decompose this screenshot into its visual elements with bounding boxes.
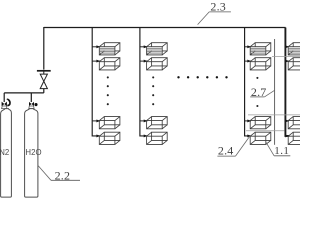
ellipsis dots horizontal (omitted branches) (177, 76, 227, 78)
arrow feed row2 branch 4 (285, 60, 289, 63)
arrow feed row4 branch 1 (96, 134, 100, 137)
section line upper (272, 55, 300, 57)
gas cylinder H2O (2.2) (25, 109, 38, 198)
arrow feed row1 branch 3 (247, 45, 251, 48)
label 2.7 underline (250, 96, 264, 98)
wire: stub row3 branch 4 (285, 120, 289, 122)
wire: stub row3 branch 3 (245, 120, 251, 122)
ellipsis dots branch 3 (256, 77, 258, 107)
cell box L1R3 (99, 117, 120, 129)
cell box L3R3 (250, 117, 271, 129)
label 2.4 underline (217, 155, 235, 157)
wire: bar to valve stem (43, 72, 45, 75)
section line lower (248, 114, 300, 116)
arrow feed row4 branch 2 (144, 134, 148, 137)
arrow feed row3 branch 4 (285, 119, 289, 122)
arrow feed row3 branch 1 (96, 119, 100, 122)
arrow feed row2 branch 2 (144, 60, 148, 63)
label 2.2 leader (38, 166, 51, 181)
H2O cylinder valve (29, 102, 34, 106)
cell box L3R4 (250, 132, 271, 144)
arrow feed row1 branch 4 (285, 45, 289, 48)
cell box L4R3 (288, 117, 309, 129)
svg-text:H2O: H2O (25, 148, 41, 157)
label 2.2 underline (51, 179, 80, 181)
shutoff valve (bowtie) on riser (40, 74, 47, 89)
cell box L2R1 (shaded) (147, 43, 168, 55)
arrow feed row1 branch 2 (144, 45, 148, 48)
wire: main supply pipe (top manifold 2.3) (44, 27, 286, 29)
cell box L1R1 (shaded) (99, 43, 120, 55)
wire: stub row2 branch 3 (245, 60, 251, 62)
wire: stub row3 branch 2 (140, 120, 148, 122)
label 1.1 underline (274, 155, 290, 157)
cell box L2R3 (147, 117, 168, 129)
cell box L2R4 (147, 132, 168, 144)
wire: branch 2 bus (140, 28, 148, 136)
wire: stub row1 branch 4 (285, 46, 289, 48)
svg-text:2.3: 2.3 (210, 0, 226, 14)
wire: stub row1 branch 1 (92, 46, 100, 48)
N2 cylinder valve gauge hook (7, 99, 10, 105)
wire: branch 3 bus (245, 28, 252, 136)
wire: drop to N2 cylinder valve (3, 93, 5, 102)
gas cylinder N2 (1, 109, 12, 198)
arrow feed row2 branch 1 (96, 60, 100, 63)
svg-text:2.4: 2.4 (218, 144, 234, 158)
H2O cylinder neck (29, 106, 34, 109)
rail 2.7 (vertical line through branch 3) (274, 39, 276, 145)
arrow feed row2 branch 3 (247, 60, 251, 63)
arrow feed row4 branch 4 (285, 134, 289, 137)
ellipsis dots branch 2 (152, 76, 154, 105)
H2O cylinder valve handwheel dot (34, 103, 37, 106)
label 2.7 leader (264, 90, 274, 97)
label 2.3 leader (198, 12, 210, 25)
wire: branch 4 bus (285, 28, 289, 136)
wire: cylinder manifold header (4, 92, 44, 94)
N2 cylinder valve (2, 102, 7, 107)
arrow feed row1 branch 1 (96, 45, 100, 48)
cell box L2R2 (147, 58, 168, 70)
wire: stub row2 branch 4 (285, 60, 289, 62)
ellipsis dots branch 1 (107, 76, 109, 105)
arrow feed row3 branch 3 (247, 119, 251, 122)
cell box L4R2 (288, 58, 309, 70)
N2 cylinder neck (2, 106, 7, 109)
cell box L3R1 (shaded) (250, 43, 271, 55)
label 1.1 leader (266, 142, 275, 156)
section line row3 bottom (246, 130, 285, 132)
cell box L1R4 (99, 132, 120, 144)
wire: stub row1 branch 3 (245, 46, 251, 48)
svg-text:2.2: 2.2 (55, 169, 71, 183)
wire: valve down to cylinder header (43, 89, 45, 93)
cell box L1R2 (99, 58, 120, 70)
wire: riser from regulator up to main pipe (43, 27, 45, 70)
wire: stub row1 branch 2 (140, 46, 148, 48)
wire: stub row3 branch 1 (92, 120, 100, 122)
wire: stub row2 branch 1 (92, 60, 100, 62)
label 2.4 leader (236, 137, 250, 156)
svg-text:N2: N2 (0, 148, 9, 157)
wire: stub row2 branch 2 (140, 60, 148, 62)
arrow feed row3 branch 2 (144, 119, 148, 122)
arrow feed row4 branch 3 (247, 134, 251, 137)
wire: branch 1 bus (92, 28, 100, 136)
svg-text:2.7: 2.7 (251, 85, 267, 99)
wire: drop to H2O cylinder valve (30, 93, 32, 102)
cell box L3R2 (250, 58, 271, 70)
cell box L4R1 (shaded) (288, 43, 309, 55)
regulator T-bar (37, 70, 51, 72)
label 2.3 underline (209, 11, 231, 13)
cell box L4R4 (288, 132, 309, 144)
svg-text:1.1: 1.1 (274, 145, 289, 157)
